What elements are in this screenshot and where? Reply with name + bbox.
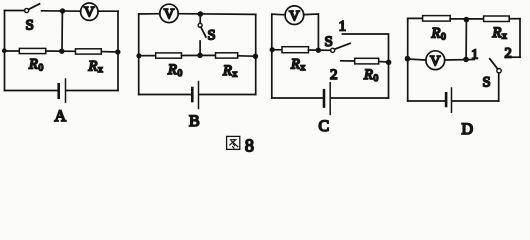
wire A bottom right — [66, 90, 118, 92]
resistor Rx (C) — [282, 47, 309, 53]
switch S (B): wire from blade to middle junction — [199, 41, 201, 55]
resistor R0 (C) — [355, 58, 379, 64]
svg-text:R: R — [431, 26, 441, 42]
svg-text:x: x — [98, 65, 103, 75]
wire A bottom left — [5, 90, 59, 92]
svg-text:0: 0 — [39, 64, 44, 74]
node D middle junction — [463, 57, 469, 63]
switch S (A) blade — [29, 4, 40, 10]
voltmeter V (B) — [160, 4, 178, 22]
node D middle left on left wire — [405, 56, 411, 62]
wire D bottom left — [408, 100, 446, 102]
svg-text:R: R — [290, 57, 300, 73]
resistor R0 (D) — [423, 16, 451, 22]
svg-text:S: S — [483, 75, 491, 91]
svg-text:0: 0 — [374, 74, 379, 84]
svg-text:A: A — [55, 108, 67, 125]
node B top junction — [198, 11, 204, 17]
wire D top right — [509, 18, 520, 20]
wire D right vertical — [519, 19, 521, 58]
svg-text:R: R — [28, 57, 38, 73]
wire D left vertical — [407, 18, 409, 101]
svg-text:8: 8 — [245, 135, 254, 155]
wire D from pivot down to bottom — [498, 73, 500, 101]
resistor Rx (B) — [216, 53, 238, 58]
wire A right vertical — [117, 11, 119, 90]
wire C bottom right — [331, 97, 389, 99]
svg-text:1: 1 — [339, 19, 346, 35]
wire D contact-2 stub — [512, 56, 520, 58]
svg-text:R: R — [222, 63, 232, 79]
wire B middle right — [238, 55, 256, 57]
battery (C) short plate — [323, 90, 326, 106]
wire C R0 to right wire — [379, 61, 389, 64]
svg-text:C: C — [319, 118, 330, 135]
switch S (B) blade — [201, 27, 206, 37]
battery (A) short plate — [57, 84, 60, 98]
wire C bottom left — [272, 97, 323, 99]
wire C left vertical — [271, 14, 273, 98]
wire B bottom right — [199, 94, 256, 96]
voltmeter V (C) — [285, 6, 304, 25]
wire A top-left to switch — [5, 10, 25, 12]
wire A middle right — [101, 51, 118, 53]
node C right junction — [386, 60, 392, 66]
wire B bottom left — [139, 94, 192, 96]
node A middle junction — [59, 49, 64, 54]
svg-text:V: V — [164, 7, 175, 23]
svg-text:2: 2 — [505, 46, 512, 62]
switch S (A) pivot circle — [25, 8, 29, 12]
wire C main row left — [272, 49, 282, 51]
voltmeter V (D) — [426, 51, 445, 70]
node A middle left — [2, 48, 7, 53]
svg-text:R: R — [88, 59, 98, 75]
wire D bottom right — [452, 100, 499, 102]
node B middle junction — [197, 53, 203, 59]
battery (B) long plate — [198, 82, 200, 109]
resistor Rx (D) — [484, 16, 510, 22]
wire C contact-1 to right corner — [343, 34, 389, 60]
resistor Rx (A) — [76, 49, 102, 54]
wire A middle between resistors — [46, 50, 76, 52]
switch S (C) pivot circle — [331, 48, 335, 52]
svg-text:R: R — [492, 25, 502, 41]
node B middle right — [253, 54, 258, 59]
switch S (D) blade — [490, 59, 498, 69]
wire A vertical from top junction to middle junction — [61, 11, 63, 51]
svg-text:B: B — [189, 113, 200, 130]
svg-text:1: 1 — [471, 48, 478, 63]
svg-text:R: R — [363, 67, 373, 83]
voltmeter V (A) — [81, 3, 98, 20]
battery (A) long plate — [65, 79, 67, 102]
wire D middle row right — [445, 59, 474, 62]
wire B middle center — [182, 54, 216, 56]
wire A left vertical — [4, 11, 6, 91]
wire B middle row left — [139, 55, 156, 57]
svg-text:x: x — [502, 32, 507, 42]
node B middle left — [136, 53, 141, 58]
node C main junction — [316, 48, 321, 53]
battery (D) long plate — [451, 88, 453, 112]
wire B top middle — [178, 13, 256, 16]
svg-text:S: S — [325, 34, 333, 50]
wire A top right — [98, 10, 118, 12]
battery (B) short plate — [191, 88, 194, 101]
switch S (B): wire from top junction down to pivot — [199, 14, 201, 23]
svg-text:x: x — [233, 70, 238, 80]
wire B right vertical — [255, 14, 257, 94]
node A top junction — [60, 8, 65, 13]
svg-text:D: D — [462, 121, 474, 138]
wire C main row right — [309, 49, 331, 51]
wire C right vertical lower — [388, 62, 390, 98]
node A middle right junction — [115, 49, 120, 54]
battery (D) short plate — [445, 93, 448, 106]
svg-text:S: S — [26, 18, 34, 34]
svg-text:V: V — [430, 53, 441, 69]
svg-text:x: x — [301, 63, 306, 73]
caption hanzi TU (图) drawn as path — [227, 136, 240, 149]
wire A top middle — [42, 10, 81, 12]
switch S (C) blade — [335, 43, 351, 49]
wire D middle row left — [408, 59, 426, 60]
svg-text:S: S — [208, 28, 216, 44]
resistor R0 (A) — [19, 48, 46, 53]
wire A middle row — [5, 50, 20, 52]
wire B top-left — [139, 13, 160, 15]
resistor R0 (B) — [156, 53, 182, 58]
battery (C) long plate — [329, 83, 331, 115]
wire C voltmeter loop top-left — [272, 13, 285, 16]
wire D top middle — [450, 18, 483, 20]
wire B left vertical — [138, 14, 140, 95]
wire D top-left — [408, 17, 423, 19]
wire C voltmeter loop top-right — [304, 14, 319, 48]
switch S (B) pivot circle — [198, 23, 202, 27]
wire D vertical from top junction to middle junction — [465, 20, 467, 60]
node D top junction — [464, 17, 470, 23]
svg-text:0: 0 — [178, 69, 183, 79]
svg-text:V: V — [289, 8, 300, 24]
wire C contact-2 to R0 — [341, 60, 355, 62]
switch S (D) pivot circle — [497, 69, 501, 73]
node C main left — [270, 47, 275, 52]
svg-text:2: 2 — [330, 67, 338, 83]
svg-text:0: 0 — [441, 33, 446, 43]
svg-text:V: V — [84, 5, 95, 21]
svg-text:R: R — [167, 62, 177, 78]
